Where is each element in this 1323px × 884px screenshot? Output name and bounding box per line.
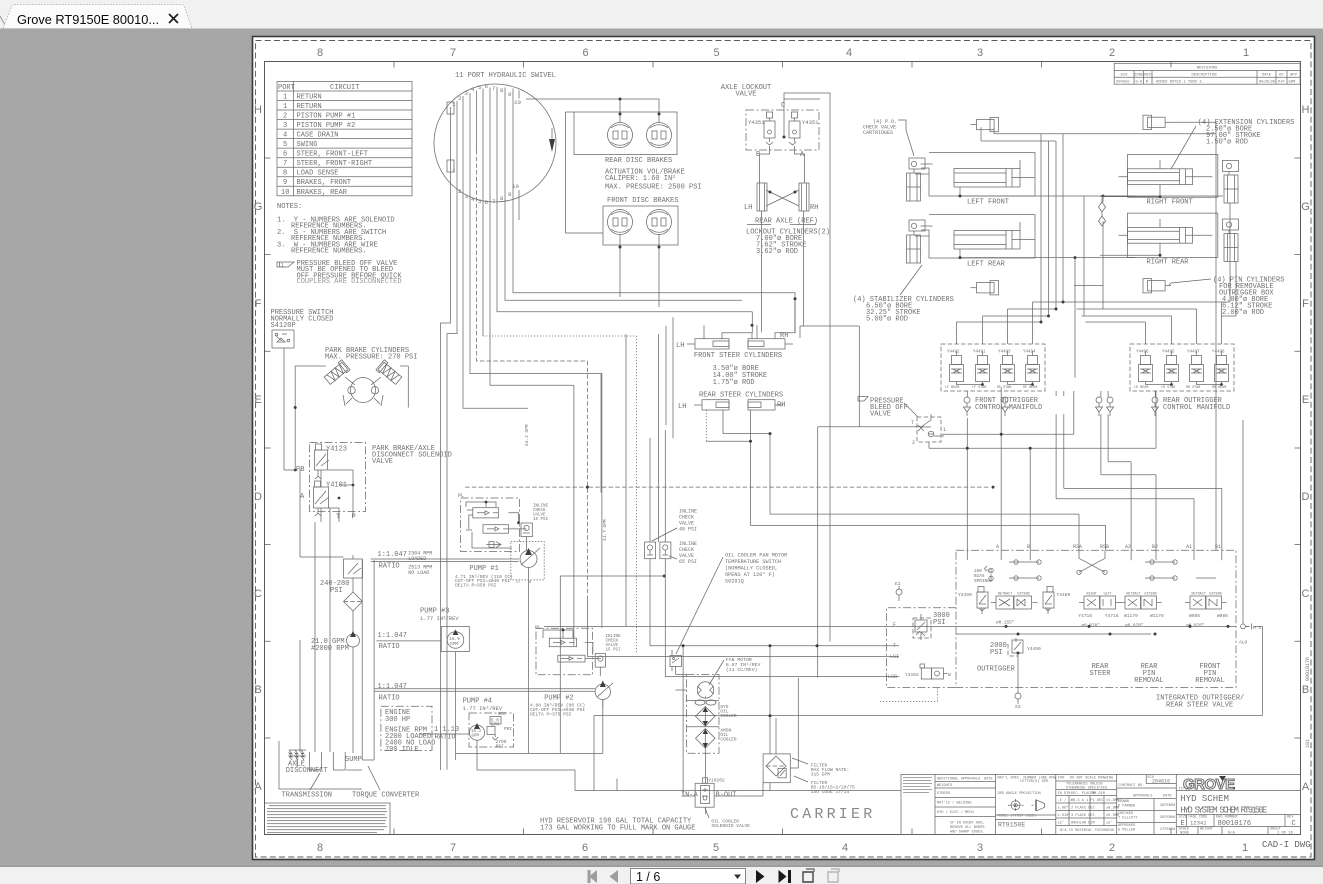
fan motor solenoid bbox=[670, 650, 682, 671]
rear outrigger control manifold enclosure bbox=[1130, 344, 1234, 391]
shaft to pump4 bbox=[434, 726, 459, 742]
front manifold label bbox=[975, 397, 1042, 412]
tool icon 1 bbox=[803, 869, 814, 882]
cooler section divider lines bbox=[686, 701, 719, 727]
tool icon 2 (disabled) bbox=[828, 869, 839, 882]
pump 2 inline check 15 psi bbox=[595, 654, 605, 668]
pump 2 piston pump circle bbox=[595, 683, 613, 700]
drawing frame border bbox=[265, 62, 1301, 835]
stabilizer cylinders spec label bbox=[853, 296, 954, 324]
E1 gauge symbol bbox=[896, 586, 902, 601]
wire left rear po riser bbox=[1103, 195, 1223, 197]
front brakes return wires bbox=[620, 234, 659, 307]
pin cylinder left front bbox=[971, 117, 999, 131]
junction dots filter column bbox=[769, 644, 772, 647]
inline check valve 45 psi label bbox=[679, 509, 697, 533]
actuation vol label bbox=[605, 169, 702, 192]
flag note 1 symbol bbox=[277, 262, 294, 267]
bias spring check symbols bbox=[984, 566, 993, 582]
leader to fan motor bbox=[709, 660, 724, 685]
pressure bleed off valve label with flag bbox=[858, 397, 868, 402]
wire manifold check verticals bbox=[967, 391, 1155, 560]
wire pin cylinder feeds bbox=[981, 122, 1216, 550]
wire stabilizer bundle verticals bbox=[1041, 134, 1103, 322]
torque converter column bbox=[362, 560, 374, 760]
frame column ticks top bbox=[394, 62, 1171, 68]
solenoid valve Y4101 bbox=[314, 481, 330, 516]
pump 3 bbox=[420, 608, 459, 623]
lockout cylinders spec label bbox=[746, 229, 830, 257]
pin cylinder lower left bbox=[971, 281, 999, 295]
pump 2 assembly bbox=[536, 628, 593, 675]
swivel port number labels bottom bbox=[452, 167, 519, 206]
leader from stabilizer label bbox=[900, 265, 922, 295]
shuttle check row 2 bbox=[1009, 576, 1216, 580]
po check valve cartridges label bbox=[863, 119, 897, 136]
fan blades bbox=[695, 696, 716, 705]
solenoid cartridge Y4491 bbox=[976, 351, 990, 382]
front steer spec label bbox=[713, 365, 768, 387]
front brake caliper right bbox=[647, 210, 672, 235]
wire po check risers bbox=[1074, 196, 1103, 378]
leader to bleed valve bbox=[904, 403, 918, 417]
park brake supply wires bbox=[295, 366, 408, 470]
port circuit table text bbox=[278, 84, 372, 197]
left rear bottom wire bbox=[959, 249, 1136, 259]
wire swivel case drain bbox=[476, 348, 478, 350]
wire dashed load sense run bbox=[465, 361, 990, 600]
left front stabilizer enclosure bbox=[915, 153, 1035, 196]
transmission sump bbox=[279, 741, 362, 789]
pump2 drive shaft bbox=[375, 689, 596, 691]
wire S3 drop bbox=[1017, 653, 1019, 699]
swivel port lines bbox=[441, 87, 796, 770]
tab close button bbox=[169, 14, 178, 23]
pin cylinders label bbox=[1213, 277, 1284, 318]
oil cooler fan temp switch label bbox=[725, 553, 787, 585]
inline check valve 65 psi bbox=[660, 542, 671, 559]
rear steer feed wires bbox=[706, 410, 771, 525]
valve block port labels top bbox=[996, 544, 1221, 550]
pump 1 compensator spool A bbox=[467, 508, 499, 529]
right front extension enclosure bbox=[1128, 155, 1218, 198]
wire right hand coupler run bbox=[1243, 420, 1249, 629]
solenoid valve Y4351 left bbox=[764, 112, 775, 145]
100 psi bias spring label bbox=[974, 569, 993, 584]
port labels PB A T P bbox=[296, 466, 356, 522]
relief valve 3000 psi bbox=[933, 612, 950, 627]
wire rear axle to front steer junction bbox=[760, 182, 860, 427]
wire valve block internal horizontals bbox=[956, 626, 1236, 634]
solenoid cartridge Y4497 bbox=[1190, 351, 1204, 382]
oil cooler solenoid valve Y10202 bbox=[695, 778, 714, 807]
po check valve right rear bbox=[1223, 219, 1239, 262]
rear manifold label bbox=[1163, 397, 1230, 412]
manifold port labels bbox=[1134, 386, 1226, 390]
front outrigger control manifold enclosure bbox=[941, 344, 1045, 391]
partial tab edge far left bbox=[0, 16, 5, 25]
wire manifold top feeds bbox=[957, 302, 1222, 344]
filter diamond bbox=[344, 592, 363, 611]
wire run to valve block left ports bbox=[659, 317, 674, 542]
rear disc brakes enclosure bbox=[574, 112, 677, 155]
swivel flow arrow bbox=[549, 139, 555, 152]
wire pump4 line bbox=[477, 740, 575, 770]
wire stabilizer bundle horizontals bbox=[957, 302, 1231, 322]
junction dots valve block bbox=[1005, 625, 1008, 628]
frame row ticks left bbox=[265, 158, 271, 738]
wires inside valve assembly bbox=[321, 470, 354, 522]
solenoid cartridge Y4492 bbox=[950, 351, 964, 382]
integrated valve dash-dot enclosure bbox=[956, 550, 1236, 687]
pump 1 piston pump circle bbox=[511, 542, 544, 580]
wire cooler connections bbox=[675, 666, 798, 796]
filter leader lines bbox=[792, 758, 808, 782]
pressure switch S4120P symbol bbox=[272, 330, 294, 348]
retract extend valve pair 2 bbox=[1127, 593, 1157, 597]
park brake cylinders symbol bbox=[323, 360, 403, 406]
po check valve right front bbox=[1223, 160, 1239, 203]
third angle projection symbol bbox=[1008, 799, 1045, 812]
xmsn oil cooler diamond bbox=[696, 729, 716, 749]
pump2 wires bbox=[543, 629, 603, 708]
prev page button (disabled) bbox=[610, 870, 619, 883]
rear steer cylinder LH bbox=[694, 400, 729, 410]
wire long vertical 44.7 gpm bbox=[601, 373, 603, 628]
left port labels F T LSI LSB bbox=[888, 622, 899, 680]
leaders for check valve labels bbox=[652, 528, 677, 559]
right front bottom wire bbox=[1100, 185, 1162, 199]
front disc brakes enclosure bbox=[603, 206, 678, 245]
S3 gauge symbol bbox=[1015, 688, 1021, 705]
wire verticals into valve block top bbox=[1001, 387, 1030, 560]
lockout cylinder LH bbox=[757, 183, 767, 211]
inline check valve 45 psi bbox=[645, 542, 656, 559]
pin cylinder right front bbox=[1143, 115, 1171, 129]
rear brake caliper left bbox=[608, 123, 633, 148]
pump 2 compensator spool A bbox=[549, 638, 576, 647]
tab strip background bbox=[0, 0, 1323, 29]
wire staircase horizontal run A bbox=[794, 303, 796, 333]
pressure bleed off valve bbox=[917, 417, 941, 442]
next page button bbox=[756, 870, 765, 883]
po check valve left rear bbox=[907, 220, 933, 263]
dotted electric line bbox=[483, 336, 637, 653]
pump 4 bbox=[463, 698, 503, 713]
cooler assembly dashed enclosure bbox=[686, 674, 719, 753]
pump2 drive ratio label bbox=[378, 683, 407, 703]
HG quick coupler bbox=[1241, 623, 1252, 629]
wire oil cooler solenoid bottom bbox=[683, 646, 705, 814]
swivel body ellipse bbox=[434, 84, 556, 202]
extension cylinders label bbox=[1198, 119, 1295, 147]
wire pump2 suction bbox=[456, 700, 603, 754]
title block tiny left text bbox=[903, 777, 932, 793]
wire pump drains to sump bbox=[300, 470, 330, 752]
page number input bbox=[631, 869, 746, 884]
manifold port labels bbox=[945, 386, 1037, 390]
right rear bottom wire bbox=[1100, 243, 1162, 257]
check valves left of rear manifold bbox=[1096, 397, 1114, 416]
right rear extension cylinder bbox=[1119, 219, 1213, 243]
pump 1 compensator spool B bbox=[483, 525, 509, 534]
leader pin cylinders bbox=[1169, 279, 1211, 285]
wire inline checks down bbox=[650, 559, 665, 677]
pressure switch S4120P label bbox=[271, 309, 334, 330]
port labels C B A bbox=[756, 102, 805, 159]
leader to po check bbox=[898, 120, 914, 156]
wire vertical to inline checks bbox=[650, 430, 665, 542]
white page bbox=[253, 37, 1315, 860]
crossing wires between lockout cylinders bbox=[762, 190, 804, 332]
wire vertical to pump2 bbox=[625, 334, 627, 626]
charge pump 21.0 GPM bbox=[311, 638, 349, 653]
left front stabilizer cylinder bbox=[954, 160, 1035, 187]
inline check valve 65 psi label bbox=[679, 541, 697, 565]
title block frame bbox=[901, 774, 1301, 834]
shaft to pump1 bbox=[378, 551, 407, 571]
wire long vertical to reservoir bbox=[663, 292, 665, 294]
front brake caliper left bbox=[608, 210, 633, 235]
misc junction dots bbox=[1000, 433, 1003, 436]
lockout valve wires bbox=[760, 110, 805, 183]
rear steer cylinder RH bbox=[748, 400, 783, 410]
swivel port number labels top bbox=[452, 83, 521, 108]
filter labels bbox=[811, 763, 855, 796]
hyd reservoir label bbox=[540, 818, 695, 833]
shuttle check row 1 bbox=[1009, 560, 1177, 564]
last page button bbox=[779, 870, 792, 883]
inline check diamonds left of right front bbox=[1099, 198, 1106, 226]
relief valve 2000 psi Y4499 bbox=[990, 642, 1007, 657]
leader temp switch bbox=[676, 557, 723, 654]
front brake supply wire bbox=[566, 112, 604, 233]
engine box bbox=[381, 706, 432, 750]
right rear extension enclosure bbox=[1128, 213, 1218, 257]
front steer feed wires bbox=[704, 297, 797, 339]
manifold bottom wires bbox=[1146, 382, 1223, 386]
revisions table bbox=[1114, 63, 1300, 84]
rear brakes supply wires bbox=[526, 99, 659, 122]
active tab bbox=[3, 5, 192, 29]
frame column ticks bottom bbox=[394, 829, 1171, 835]
wire pump2 feed horizontal bbox=[560, 576, 664, 753]
park brake/axle disconnect valve label bbox=[372, 445, 452, 466]
frame row ticks right bbox=[1295, 158, 1301, 738]
axle disconnect symbol bbox=[289, 750, 306, 767]
filter assembly bbox=[763, 754, 790, 783]
first page button (disabled) bbox=[588, 870, 598, 883]
manifold bottom wires bbox=[957, 382, 1034, 386]
po check valve left front bbox=[907, 158, 933, 201]
valve block left annex dash-dot bbox=[887, 608, 957, 688]
wire filter column bbox=[770, 427, 818, 791]
pin cylinder right lower bbox=[1143, 279, 1171, 293]
retract extend valve pair 3 bbox=[1192, 593, 1222, 597]
pressure reducing valve 240-280 PSI bbox=[344, 555, 363, 592]
wire pump column verticals bbox=[573, 385, 575, 646]
wire pump1 suction bbox=[528, 584, 530, 754]
check valves below rear manifold bbox=[1152, 397, 1159, 416]
pump 2 compensator spool B bbox=[558, 655, 585, 662]
wire center horizontals to valve block bbox=[751, 391, 1222, 560]
pump1 internal wires bbox=[466, 501, 529, 584]
solenoid cartridge Y4495 bbox=[1165, 351, 1179, 382]
left rear stabilizer enclosure bbox=[915, 215, 1035, 258]
integrated outrigger label bbox=[1156, 695, 1244, 710]
left rear stabilizer cylinder bbox=[954, 222, 1035, 249]
port circuit table frame bbox=[277, 82, 412, 196]
pump 1 inline check 15 psi bbox=[521, 523, 532, 537]
wire transmission cooler return bbox=[310, 769, 363, 771]
retract extend valve pair 1 bbox=[998, 593, 1030, 597]
leader extension bbox=[1171, 126, 1196, 169]
axle lockout valve label bbox=[721, 84, 771, 99]
right left valve pair bbox=[1087, 593, 1112, 597]
solenoid cartridge Y4496 bbox=[1139, 351, 1153, 382]
fan motor circle bbox=[697, 682, 713, 698]
solenoid valve Y4351 right bbox=[789, 112, 800, 145]
front steer cylinder RH bbox=[748, 339, 793, 349]
svg-text:1 / 6: 1 / 6 bbox=[636, 870, 660, 884]
crossover RSA RSB bbox=[1077, 550, 1107, 574]
wire valve block left feeds bbox=[544, 600, 956, 677]
swivel port 1 terminal boxes bbox=[447, 102, 454, 114]
hyd oil cooler diamond bbox=[696, 707, 716, 727]
fan motor label bbox=[726, 657, 761, 673]
wire park brake feed bbox=[300, 469, 344, 557]
solenoid cartridge Y4493 bbox=[1001, 351, 1015, 382]
solenoid valve Y4123 bbox=[315, 444, 330, 479]
sheet dashed margin border bbox=[256, 41, 1312, 858]
right front extension cylinder bbox=[1119, 160, 1213, 185]
wire from pressure switch down bbox=[284, 348, 295, 470]
wire reservoir rail bbox=[575, 626, 1263, 790]
solenoid cartridge Y4498 bbox=[1215, 351, 1229, 382]
proprietary note block bbox=[265, 803, 391, 835]
axle lockout valve dashed enclosure bbox=[746, 110, 819, 150]
wire right po check drops bbox=[1222, 203, 1237, 316]
front steer cylinder LH bbox=[687, 339, 729, 349]
oil cooler solenoid valve label bbox=[711, 819, 750, 830]
pump 1 assembly bbox=[469, 565, 531, 585]
LH RH labels bbox=[744, 204, 818, 212]
rear brake caliper right bbox=[647, 123, 672, 148]
check valves below front manifold bbox=[964, 397, 1009, 416]
pump 2 labels bbox=[544, 695, 573, 703]
valve assembly dashed enclosure bbox=[310, 443, 366, 512]
lockout cylinder RH bbox=[799, 183, 809, 211]
left front bottom wire bbox=[959, 187, 1136, 198]
axle lockout supply bracket wire bbox=[784, 93, 830, 642]
drive shaft pump3 bbox=[378, 632, 407, 651]
solenoid cartridge Y4494 bbox=[1026, 351, 1040, 382]
park brake cylinders label bbox=[325, 347, 417, 362]
